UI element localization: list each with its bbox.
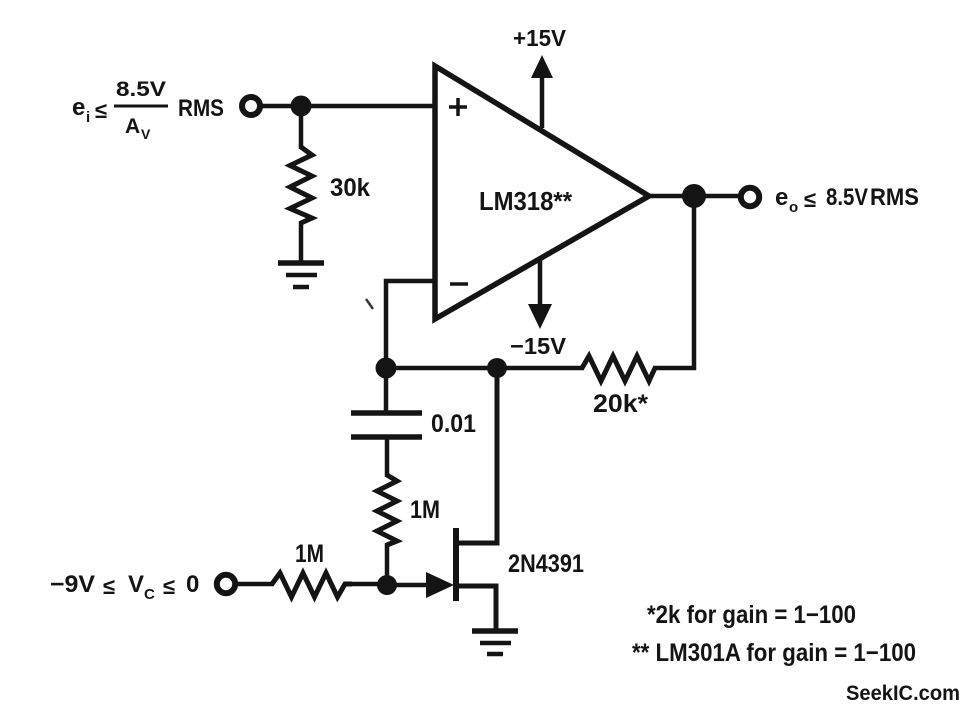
resistor R2 20k* [582,356,655,381]
terminal control circle [217,575,235,593]
svg-text:30k: 30k [330,174,370,202]
svg-text:20k*: 20k* [593,390,648,418]
svg-text:*2k for gain = 1−100: *2k for gain = 1−100 [647,601,856,629]
wire capacitor to resistor [385,437,390,477]
svg-text:SeekIC.com: SeekIC.com [846,682,960,705]
node B (feedback / drain junction) [487,358,507,378]
svg-text:2N4391: 2N4391 [508,550,584,578]
label input ei <= 8.5V/Av RMS [72,78,224,142]
node input junction [291,96,312,117]
svg-text:LM318**: LM318** [479,186,573,216]
wire feedback middle [384,366,584,371]
svg-text:** LM301A for gain = 1−100: ** LM301A for gain = 1−100 [632,639,916,667]
capacitor C1 0.01 [351,413,422,437]
svg-text:≤: ≤ [103,574,115,599]
wire op-amp output [647,194,741,199]
wire input to op-amp + [261,104,436,109]
wire resistor to node C [350,582,390,587]
-15V supply arrow [528,259,552,329]
node A (feedback / cap junction) [376,358,397,379]
svg-text:0.01: 0.01 [431,410,476,438]
svg-text:−9V: −9V [50,571,95,598]
svg-text:8.5V: 8.5V [116,78,166,101]
wire node C to gate [387,583,428,588]
label -9V <= Vc <= 0 [50,571,199,603]
svg-text:RMS: RMS [178,95,224,122]
wire output down to feedback [692,196,697,370]
svg-text:i: i [86,109,90,126]
resistor R1 30k [290,147,312,223]
wire to inverting input [386,281,436,370]
wire junction down to resistor [299,106,304,149]
svg-text:≤: ≤ [163,574,175,599]
source lead wire [456,586,496,631]
wire resistor to node C [385,543,390,586]
node output junction [682,184,706,208]
wire control to resistor [236,582,274,587]
plus sign (non-inverting input) [449,98,467,116]
svg-text:RMS: RMS [870,184,919,211]
node C (gate junction) [377,575,397,595]
ground (below 30k) [278,263,324,287]
minus sign (inverting input) [450,282,468,286]
wire node A down to capacitor [384,368,389,412]
svg-text:V: V [128,571,144,598]
resistor R4 1M horizontal [272,573,352,597]
terminal input circle [242,97,260,115]
gate arrow of Q1 [426,572,454,598]
svg-text:A: A [125,115,140,138]
wire resistor to ground [299,221,304,263]
svg-text:−15V: −15V [510,333,567,359]
svg-text:8.5V: 8.5V [826,184,868,211]
svg-text:0: 0 [186,571,199,598]
svg-text:C: C [144,586,155,603]
svg-text:e: e [72,94,85,121]
label eo <= 8.5VRMS [775,184,919,216]
drain lead wire [456,366,497,543]
+15V supply arrow [531,55,553,128]
svg-text:V: V [141,126,151,142]
svg-text:1M: 1M [410,496,440,524]
svg-text:≤: ≤ [95,98,107,123]
svg-text:o: o [789,199,798,216]
ground (below Q1) [472,631,518,654]
svg-text:1M: 1M [295,540,324,568]
svg-text:+15V: +15V [513,25,567,51]
wire feedback right segment [653,366,696,371]
stray scan mark [366,299,373,309]
svg-text:e: e [775,184,788,211]
terminal output circle [741,188,759,206]
resistor R3 1M vertical [377,475,397,545]
op-amp U1 triangle [435,66,649,319]
transistor Q1 2N4391 channel bar [453,528,459,601]
svg-text:≤: ≤ [804,187,816,212]
